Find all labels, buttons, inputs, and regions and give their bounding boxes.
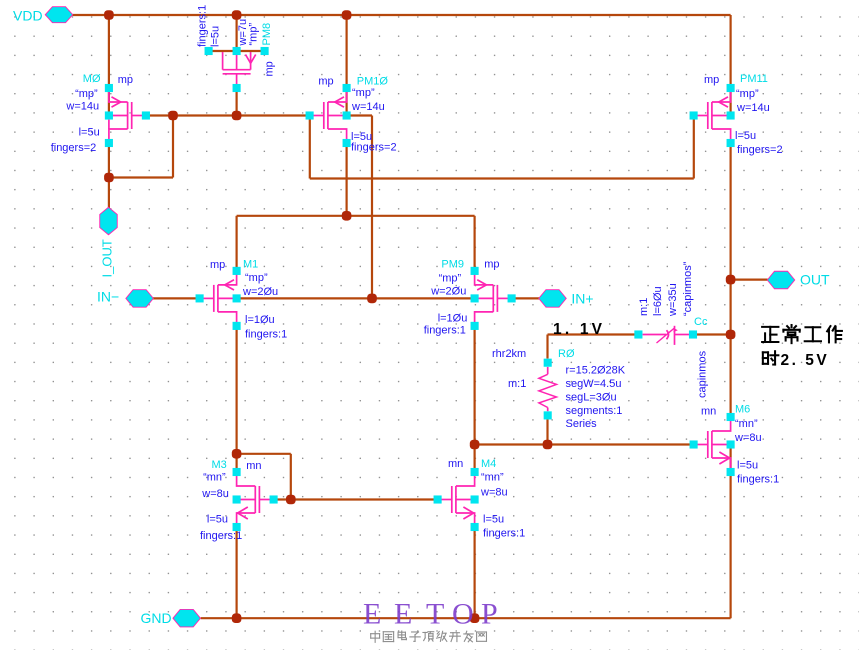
wire node to R0 top bbox=[546, 335, 548, 359]
svg-text:fingers=2: fingers=2 bbox=[51, 142, 97, 154]
svg-text:w=8u: w=8u bbox=[480, 487, 508, 499]
OUT pin bbox=[767, 271, 830, 289]
svg-text:m:1: m:1 bbox=[638, 298, 650, 316]
wire bulk net M1-PM9 bbox=[237, 297, 475, 299]
wire PM10 source from VDD bbox=[346, 15, 348, 116]
svg-text:P: P bbox=[481, 598, 498, 631]
label PM10 properties bbox=[351, 87, 397, 154]
junction R0 bottom bbox=[543, 440, 553, 450]
label M6 name bbox=[735, 404, 750, 416]
wire first-stage output to M6 gate bbox=[475, 443, 694, 445]
transistor PM11 bbox=[690, 84, 735, 147]
svg-text:fingers:1: fingers:1 bbox=[245, 329, 287, 341]
svg-text:mp: mp bbox=[118, 74, 133, 86]
label M3 model bbox=[246, 460, 261, 472]
wire GND rail bbox=[201, 617, 731, 619]
wire gate link M3-M4 bbox=[274, 498, 438, 500]
svg-text:mp: mp bbox=[210, 259, 225, 271]
svg-text:E: E bbox=[363, 598, 381, 631]
wire PM10 gate down bbox=[309, 116, 311, 179]
label PM9 properties bbox=[424, 273, 468, 337]
label Cc name bbox=[694, 316, 708, 328]
junction mirror gate A bbox=[168, 111, 178, 121]
label M0 properties bbox=[51, 88, 100, 154]
transistor PM9 bbox=[471, 267, 516, 330]
node annotation 1.1V bbox=[553, 321, 605, 338]
svg-text:T: T bbox=[426, 598, 444, 631]
svg-text:r=15.2Ø28K: r=15.2Ø28K bbox=[566, 364, 626, 376]
svg-text:IN−: IN− bbox=[97, 289, 119, 305]
junction VDD-PM10 bbox=[342, 10, 352, 20]
wire M0 source from VDD bbox=[108, 15, 110, 116]
junction GND-M4 bbox=[470, 613, 480, 623]
wire M6 source to GND bbox=[729, 472, 731, 618]
svg-text:rhr2km: rhr2km bbox=[492, 348, 526, 360]
label PM11 model bbox=[704, 74, 719, 86]
transistor M0 bbox=[105, 84, 150, 147]
transistor M4 bbox=[434, 468, 479, 531]
annotation chinese line2 (at 2.5V) bbox=[763, 351, 829, 369]
label M1 name bbox=[243, 259, 258, 271]
svg-text:“mp”: “mp” bbox=[75, 88, 98, 100]
wire OUT branch bbox=[731, 279, 768, 281]
transistor PM10 bbox=[306, 84, 351, 147]
label M3 properties bbox=[200, 471, 242, 542]
label Cc model bbox=[697, 350, 709, 398]
svg-text:M4: M4 bbox=[481, 458, 496, 470]
label Cc properties bbox=[638, 261, 694, 317]
junction M3-M4 gates bbox=[286, 495, 296, 505]
svg-text:PM9: PM9 bbox=[441, 259, 464, 271]
label PM8 name bbox=[261, 23, 273, 46]
svg-text:E: E bbox=[394, 598, 412, 631]
label R0 properties bbox=[508, 364, 626, 430]
junction OUT branch bbox=[726, 275, 736, 285]
capacitor Cc (capinmos) bbox=[634, 326, 697, 345]
label PM9 name bbox=[441, 259, 464, 271]
svg-text:“mn”: “mn” bbox=[735, 418, 758, 430]
svg-text:segments:1: segments:1 bbox=[566, 405, 623, 417]
wire gate link PM10-PM11 bbox=[310, 177, 694, 179]
watermark chinese site name bbox=[371, 631, 487, 642]
svg-text:mn: mn bbox=[448, 458, 463, 470]
svg-text:l=5u: l=5u bbox=[737, 460, 758, 472]
svg-text:GND: GND bbox=[141, 610, 172, 626]
label PM10 model bbox=[318, 75, 333, 87]
label PM8 properties bbox=[197, 5, 260, 47]
svg-text:mp: mp bbox=[704, 74, 719, 86]
label R0 name bbox=[558, 348, 575, 360]
label PM11 properties bbox=[735, 88, 783, 156]
label M0 name bbox=[83, 73, 101, 85]
svg-text:“mp”: “mp” bbox=[248, 23, 260, 46]
IN- pin bbox=[97, 289, 153, 308]
GND pin bbox=[141, 609, 201, 627]
svg-text:VDD: VDD bbox=[13, 7, 43, 23]
label PM9 model bbox=[484, 259, 499, 271]
junction stage1 out bbox=[470, 440, 480, 450]
resistor R0 bbox=[539, 359, 557, 420]
label PM11 name bbox=[740, 73, 768, 85]
wire PM8 source-drain tie bbox=[209, 15, 265, 51]
svg-text:l=5u: l=5u bbox=[79, 127, 100, 139]
svg-text:w=14u: w=14u bbox=[65, 100, 99, 112]
VDD pin bbox=[13, 7, 73, 24]
wire M1 drain to M3 drain bbox=[236, 326, 238, 472]
junction M0 drain bbox=[104, 173, 114, 183]
svg-text:w=35u: w=35u bbox=[667, 283, 679, 317]
svg-text:mn: mn bbox=[701, 406, 716, 418]
wire M4 source to GND bbox=[474, 527, 476, 618]
svg-text:fingers=2: fingers=2 bbox=[737, 144, 783, 156]
svg-text:fingers:1: fingers:1 bbox=[424, 325, 466, 337]
watermark EETOP bbox=[363, 598, 498, 631]
svg-text:OUT: OUT bbox=[800, 272, 830, 288]
wire M3 diode connection bbox=[237, 454, 291, 500]
svg-text:“mp”: “mp” bbox=[352, 87, 375, 99]
junction GND-M3 bbox=[232, 613, 242, 623]
svg-text:fingers:1: fingers:1 bbox=[197, 5, 209, 47]
svg-text:l=5u: l=5u bbox=[483, 514, 504, 526]
wire R0 bottom to node bbox=[546, 420, 548, 445]
svg-text:O: O bbox=[452, 598, 474, 631]
svg-text:1. 1V: 1. 1V bbox=[553, 321, 605, 338]
svg-text:“mp”: “mp” bbox=[736, 88, 759, 100]
svg-text:l=5u: l=5u bbox=[735, 130, 756, 142]
label M6 model bbox=[701, 406, 716, 418]
wire PM10 bulk to input-pair bulk bbox=[347, 116, 372, 299]
svg-text:l=5u: l=5u bbox=[210, 26, 222, 47]
wire M6 bulk-source bbox=[729, 445, 731, 473]
junction M3 drain bbox=[232, 449, 242, 459]
label M1 model bbox=[210, 259, 225, 271]
wire mirror gate net M0-PM8-PM10 bbox=[146, 88, 310, 116]
label M0 model bbox=[118, 74, 133, 86]
svg-text:mp: mp bbox=[318, 75, 333, 87]
svg-text:w=2Øu: w=2Øu bbox=[430, 286, 466, 298]
label M4 model bbox=[448, 458, 463, 470]
svg-text:w=14u: w=14u bbox=[736, 102, 770, 114]
junction VDD-PM8 bbox=[232, 10, 242, 20]
svg-text:l=1Øu: l=1Øu bbox=[245, 314, 275, 326]
svg-text:fingers:1: fingers:1 bbox=[737, 474, 779, 486]
transistor M6 bbox=[690, 413, 735, 476]
svg-text:Cc: Cc bbox=[694, 316, 708, 328]
svg-text:capinmos: capinmos bbox=[697, 350, 709, 398]
svg-text:mn: mn bbox=[246, 460, 261, 472]
svg-text:“mn”: “mn” bbox=[481, 472, 504, 484]
svg-text:“mp”: “mp” bbox=[245, 272, 268, 284]
svg-text:w=8u: w=8u bbox=[734, 432, 762, 444]
wire 1.1V node to Cc bbox=[548, 333, 639, 335]
label PM10 name bbox=[357, 75, 389, 87]
label PM8 model bbox=[264, 61, 276, 76]
svg-text:M1: M1 bbox=[243, 259, 258, 271]
junction Cc-OUT bbox=[726, 330, 736, 340]
wire Cc to OUT net bbox=[693, 333, 731, 335]
junction bulk net bbox=[367, 294, 377, 304]
label R0 model bbox=[492, 348, 526, 360]
svg-text:mp: mp bbox=[264, 61, 276, 76]
svg-text:2. 5V: 2. 5V bbox=[781, 352, 830, 369]
wire PM11 gate down bbox=[693, 116, 695, 179]
annotation chinese line1 (normal operation) bbox=[762, 325, 842, 343]
IN+ pin bbox=[539, 290, 594, 308]
svg-text:l=5u: l=5u bbox=[207, 514, 228, 526]
svg-text:m:1: m:1 bbox=[508, 378, 526, 390]
wire M0 diode connection bbox=[109, 116, 173, 178]
label M3 name bbox=[212, 459, 227, 471]
junction VDD-M0 bbox=[104, 10, 114, 20]
wire PM11 source from VDD bbox=[729, 15, 731, 116]
label M4 properties bbox=[480, 472, 525, 540]
svg-text:fingers:1: fingers:1 bbox=[483, 528, 525, 540]
svg-text:fingers=2: fingers=2 bbox=[351, 142, 397, 154]
junction mirror gate B bbox=[232, 111, 242, 121]
wire tail node bbox=[237, 142, 475, 271]
svg-text:l=6Øu: l=6Øu bbox=[652, 286, 664, 316]
transistor M1 bbox=[196, 267, 241, 330]
wire M0 drain to I_OUT bbox=[108, 142, 110, 208]
svg-text:fingers:1: fingers:1 bbox=[200, 530, 242, 542]
svg-text:M3: M3 bbox=[212, 459, 227, 471]
svg-text:Series: Series bbox=[566, 418, 598, 430]
svg-text:IN+: IN+ bbox=[571, 291, 593, 307]
wire IN- to M1 gate bbox=[153, 297, 200, 299]
junction tail-PM10 drain bbox=[342, 211, 352, 221]
wire PM9 gate to IN+ bbox=[512, 297, 540, 299]
wire OUT vertical PM11 drain to M6 drain bbox=[729, 142, 731, 417]
svg-text:PM8: PM8 bbox=[261, 23, 273, 46]
svg-text:l=1Øu: l=1Øu bbox=[438, 313, 468, 325]
label M6 properties bbox=[734, 418, 779, 486]
svg-text:MØ: MØ bbox=[83, 73, 101, 85]
svg-text:M6: M6 bbox=[735, 404, 750, 416]
svg-text:w=8u: w=8u bbox=[201, 488, 229, 500]
transistor PM8 (MOS cap) bbox=[205, 47, 269, 92]
wire PM9 drain to M4 drain bbox=[474, 326, 476, 472]
svg-text:“mp”: “mp” bbox=[439, 273, 462, 285]
svg-text:RØ: RØ bbox=[558, 348, 575, 360]
svg-text:“mn”: “mn” bbox=[203, 471, 226, 483]
svg-text:segL=3Øu: segL=3Øu bbox=[566, 391, 617, 403]
svg-text:w=14u: w=14u bbox=[351, 101, 385, 113]
svg-text:mp: mp bbox=[484, 259, 499, 271]
svg-text:PM1Ø: PM1Ø bbox=[357, 75, 389, 87]
label M1 properties bbox=[242, 272, 287, 341]
svg-text:“capinmos”: “capinmos” bbox=[682, 261, 694, 316]
I_OUT pin bbox=[100, 207, 118, 277]
label M4 name bbox=[481, 458, 496, 470]
svg-text:w=2Øu: w=2Øu bbox=[242, 286, 278, 298]
svg-text:I_OUT: I_OUT bbox=[100, 239, 115, 277]
transistor M3 bbox=[233, 468, 278, 531]
svg-text:segW=4.5u: segW=4.5u bbox=[566, 378, 622, 390]
wire M3 source to GND bbox=[236, 527, 238, 618]
svg-text:PM11: PM11 bbox=[740, 73, 768, 85]
wire VDD rail bbox=[73, 14, 731, 16]
